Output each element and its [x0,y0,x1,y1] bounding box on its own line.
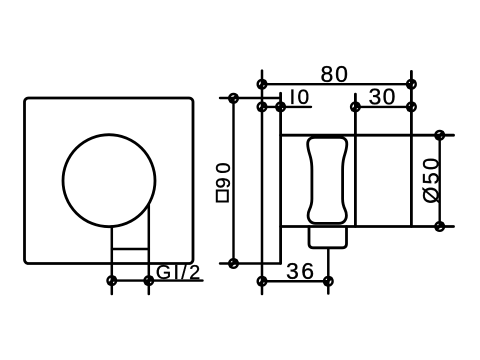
dimension line 10 [262,106,311,108]
side extension line left (wall face) [261,71,264,294]
dimension line 80 [262,83,411,85]
side plate top edge [220,97,281,99]
body top edge [281,134,454,137]
nipple axis extension line [327,248,330,294]
body bottom edge [281,225,454,228]
side plate right edge [279,93,282,263]
ring back face line [354,94,357,226]
dimension line dia50 [439,135,441,226]
dimension origin marker 30 left [351,103,360,112]
svg-text:36: 36 [286,258,317,284]
dimension origin marker G1/2 left [108,276,117,285]
front plate square outline [25,98,194,264]
svg-text:I0: I0 [290,86,312,109]
dimension origin marker G1/2 right [145,276,154,285]
nipple right edge line [148,204,151,294]
dimension origin marker dia50 top [435,131,444,140]
svg-text:90: 90 [213,159,235,189]
svg-text:80: 80 [321,61,350,87]
dimension origin marker 80 left [258,80,267,89]
dimension origin marker 10 right [276,103,285,112]
side nipple outline [309,227,347,248]
svg-text:30: 30 [369,84,397,110]
dimension origin marker square90 top [229,94,238,103]
dimension origin marker 36 left [258,277,267,286]
dimension line G1/2 [112,279,203,281]
dimension line 30 [355,106,411,108]
dimension origin marker 10 left [258,103,267,112]
handle grip outline [308,137,347,223]
label square90 square symbol [217,191,228,202]
nipple step line [112,248,149,251]
dimension line square90 [232,98,234,263]
dimension origin marker dia50 bottom [435,222,444,231]
front ring circle ø50 [63,135,155,227]
dimension origin marker 36 right [324,277,333,286]
dimension origin marker 30 right [407,103,416,112]
side plate bottom edge [220,262,281,264]
front face line [410,71,413,226]
svg-text:GI/2: GI/2 [156,262,203,284]
svg-text:Ø50: Ø50 [419,156,444,204]
dimension line 36 [262,280,328,282]
dimension origin marker square90 bottom [229,259,238,268]
dimension origin marker 80 right [407,80,416,89]
nipple left edge line [111,227,114,295]
